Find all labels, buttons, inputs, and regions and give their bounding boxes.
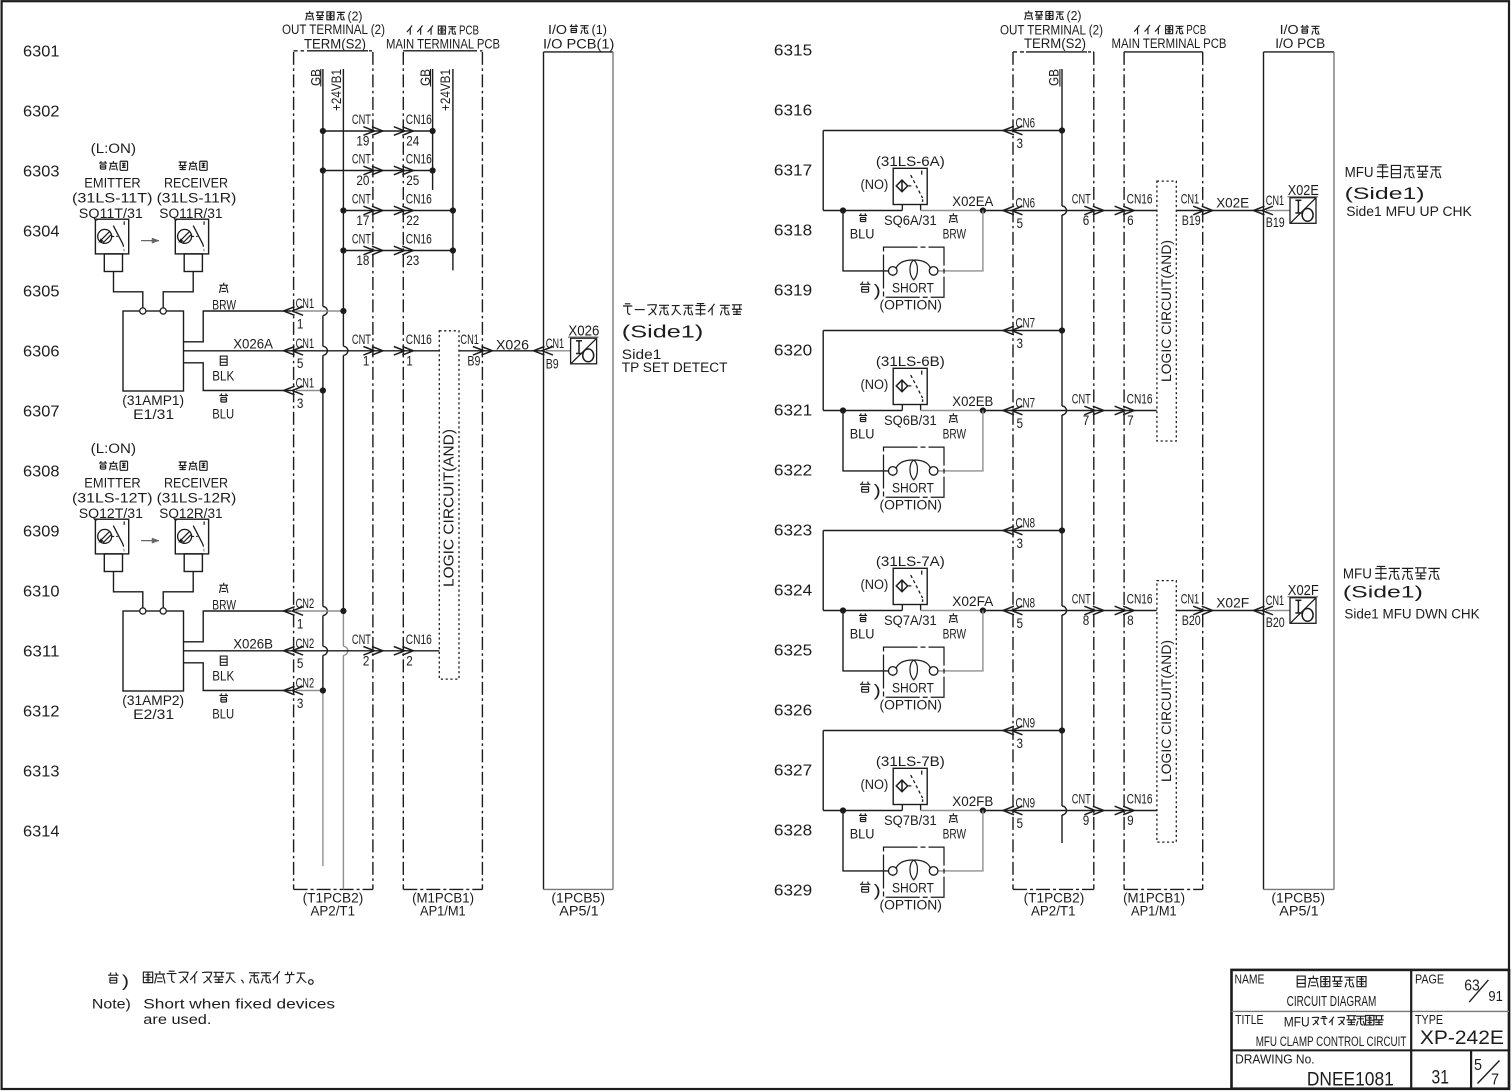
svg-text:LOGIC CIRCUIT(AND): LOGIC CIRCUIT(AND) xyxy=(442,429,458,587)
svg-text:6301: 6301 xyxy=(23,44,60,61)
svg-text:CN9: CN9 xyxy=(1016,716,1036,731)
svg-text:I/O: I/O xyxy=(548,22,567,37)
svg-text:3: 3 xyxy=(1017,336,1024,351)
svg-text:LOGIC CIRCUIT(AND): LOGIC CIRCUIT(AND) xyxy=(1159,640,1174,782)
MAIN bottom edge xyxy=(403,888,482,890)
svg-text:22: 22 xyxy=(406,213,419,229)
svg-text:6328: 6328 xyxy=(774,823,812,840)
svg-text:TERM(S2): TERM(S2) xyxy=(1024,36,1086,52)
svg-text:BRW: BRW xyxy=(943,627,967,643)
svg-text:5: 5 xyxy=(1017,816,1024,831)
svg-text:SQ7A/31: SQ7A/31 xyxy=(884,613,937,629)
svg-text:3: 3 xyxy=(1017,136,1024,151)
junction to SHORT option xyxy=(840,207,846,213)
connector CNT arrow xyxy=(1084,806,1095,815)
svg-text:CN16: CN16 xyxy=(406,332,432,348)
SHORT option sub-circuit xyxy=(843,411,889,471)
wire X02EA row xyxy=(823,210,902,212)
svg-text:AP5/1: AP5/1 xyxy=(559,904,598,920)
amplifier 31AMP2 E2/31 xyxy=(123,611,184,691)
SHORT jumper (OPTION) group 6A xyxy=(884,247,945,297)
wire BRW brown CN2 pin1 xyxy=(184,611,292,642)
connector CNT arrow xyxy=(1084,606,1095,615)
wires sensors to amplifier 2 xyxy=(114,572,143,608)
svg-text:): ) xyxy=(122,973,129,991)
svg-text:DRAWING No.: DRAWING No. xyxy=(1235,1052,1315,1067)
svg-text:CNT: CNT xyxy=(352,632,371,648)
svg-text:BRW: BRW xyxy=(212,598,236,614)
svg-text:24: 24 xyxy=(406,134,419,150)
wires sensors to amplifier xyxy=(114,272,143,308)
svg-text:B19: B19 xyxy=(1182,213,1201,228)
svg-text:MFU: MFU xyxy=(1284,1014,1310,1030)
junction BRW to +24VB1 xyxy=(340,608,346,614)
svg-text:17: 17 xyxy=(356,213,369,229)
connector CN16 arrow xyxy=(1115,806,1126,815)
svg-text:TITLE: TITLE xyxy=(1235,1012,1264,1027)
svg-text:CNT: CNT xyxy=(352,152,371,168)
svg-text:X02EA: X02EA xyxy=(952,194,993,210)
svg-text:B20: B20 xyxy=(1266,615,1285,630)
svg-text:2: 2 xyxy=(406,653,413,669)
X026 output line to I/O PCB xyxy=(459,350,542,352)
svg-text:(31LS-7A): (31LS-7A) xyxy=(876,554,945,570)
svg-text:I/O PCB: I/O PCB xyxy=(1275,36,1325,52)
connector CN1 B9 arrow (I/O pcb in) xyxy=(542,347,553,356)
svg-text:CN6: CN6 xyxy=(1016,196,1036,211)
svg-text:CN1: CN1 xyxy=(296,336,315,351)
wire CN7 pin 3 to GB xyxy=(823,330,1059,332)
svg-text:Short when fixed devices: Short when fixed devices xyxy=(143,997,335,1013)
I/O PCB(1) board rectangle xyxy=(544,51,614,53)
limit switch 31LS-7B SQ7B/31 (NO) xyxy=(893,768,927,804)
junction CN93 to GB xyxy=(1059,727,1065,733)
junction to SHORT option xyxy=(840,407,846,413)
svg-text:1: 1 xyxy=(297,316,304,331)
svg-text:5: 5 xyxy=(1474,1057,1482,1074)
connector CN16 arrow xyxy=(394,647,405,656)
svg-text:CNT: CNT xyxy=(1072,792,1091,808)
svg-text:6304: 6304 xyxy=(23,224,60,241)
svg-text:CN16: CN16 xyxy=(1127,792,1153,808)
svg-text:+24VB1: +24VB1 xyxy=(438,69,454,111)
svg-text:BLU: BLU xyxy=(850,827,875,843)
svg-text:EMITTER: EMITTER xyxy=(84,176,140,192)
svg-text:CNT: CNT xyxy=(1072,192,1091,208)
connector CN1 pin 5 arrow xyxy=(292,347,303,356)
svg-text:5: 5 xyxy=(297,356,304,371)
svg-text:XP-242E: XP-242E xyxy=(1420,1028,1504,1049)
amplifier 31AMP1 E1/31 xyxy=(123,311,184,391)
svg-text:): ) xyxy=(874,682,881,700)
svg-text:6305: 6305 xyxy=(23,284,60,301)
svg-text:AP1/M1: AP1/M1 xyxy=(1131,904,1177,920)
svg-text:9: 9 xyxy=(1127,813,1134,829)
svg-text:AP1/M1: AP1/M1 xyxy=(420,904,466,920)
connector CN16 arrow xyxy=(1115,406,1126,415)
svg-text:PCB: PCB xyxy=(459,22,479,37)
svg-text:CN1: CN1 xyxy=(1181,192,1200,207)
wire CN6 pin 3 to GB xyxy=(823,130,1059,132)
wire left side down xyxy=(822,731,824,811)
svg-text:(OPTION): (OPTION) xyxy=(880,498,942,514)
svg-text:CN1: CN1 xyxy=(546,336,565,351)
svg-text:BLK: BLK xyxy=(212,668,234,684)
svg-text:CN9: CN9 xyxy=(1016,796,1036,811)
svg-text:(NO): (NO) xyxy=(861,577,889,593)
SHORT option sub-circuit xyxy=(843,211,889,271)
svg-text:6322: 6322 xyxy=(774,463,812,480)
svg-text:CN16: CN16 xyxy=(406,112,432,128)
connector CN7 pin 3 arrow xyxy=(1012,326,1023,335)
svg-text:PAGE: PAGE xyxy=(1415,972,1444,987)
svg-text:(NO): (NO) xyxy=(861,177,889,193)
svg-text:91: 91 xyxy=(1488,989,1503,1005)
svg-text:MAIN TERMINAL PCB: MAIN TERMINAL PCB xyxy=(1112,36,1227,52)
TERM(S2) bottom edge xyxy=(294,888,373,890)
svg-text:1: 1 xyxy=(363,353,370,369)
svg-text:(31LS-12R): (31LS-12R) xyxy=(157,491,237,507)
svg-text:CN16: CN16 xyxy=(1127,392,1153,408)
svg-text:SHORT: SHORT xyxy=(892,680,934,696)
MAIN TERMINAL PCB boundary dash-dot lines xyxy=(402,52,404,890)
svg-text:CN1: CN1 xyxy=(1181,592,1200,607)
svg-text:(NO): (NO) xyxy=(861,377,889,393)
receiver 31LS-12R SQ12R/31 xyxy=(175,519,208,554)
connector CNT arrow xyxy=(363,347,374,356)
junction BRW to SHORT option xyxy=(980,607,986,613)
wire left side down xyxy=(822,331,824,411)
svg-text:TERM(S2): TERM(S2) xyxy=(304,36,366,52)
limit switch 31LS-6A SQ6A/31 (NO) xyxy=(893,168,927,204)
svg-text:GB: GB xyxy=(418,69,434,86)
svg-text:X026: X026 xyxy=(496,337,529,353)
svg-text:(2): (2) xyxy=(1067,8,1082,23)
svg-text:(31LS-6A): (31LS-6A) xyxy=(876,154,945,170)
svg-text:CN2: CN2 xyxy=(296,636,315,651)
right TERM bottom edge xyxy=(1013,888,1094,890)
svg-text:GB: GB xyxy=(308,69,324,86)
svg-text:CN6: CN6 xyxy=(1016,116,1036,131)
connector CNT arrow xyxy=(1084,206,1095,215)
junction to SHORT option xyxy=(840,607,846,613)
svg-text:8: 8 xyxy=(1083,613,1090,629)
svg-text:X02FA: X02FA xyxy=(952,594,994,610)
svg-text:Note): Note) xyxy=(92,997,131,1013)
svg-text:8: 8 xyxy=(1127,613,1134,629)
svg-text:B19: B19 xyxy=(1266,215,1285,230)
connector CN6 pin 5 arrow xyxy=(1012,206,1023,215)
svg-text:EMITTER: EMITTER xyxy=(84,476,140,492)
svg-text:Side1 MFU UP CHK: Side1 MFU UP CHK xyxy=(1346,204,1472,220)
svg-text:MAIN TERMINAL PCB: MAIN TERMINAL PCB xyxy=(386,36,500,52)
svg-text:9: 9 xyxy=(1083,813,1090,829)
SHORT jumper (OPTION) group 6B xyxy=(884,447,945,497)
connector CN1 B20 arrow (I/O in) xyxy=(1262,606,1273,615)
svg-text:X02F: X02F xyxy=(1216,595,1249,611)
svg-text:RECEIVER: RECEIVER xyxy=(164,176,228,192)
svg-text:6324: 6324 xyxy=(774,583,813,600)
connector CNT arrow xyxy=(363,647,374,656)
connector CN2 pin 3 arrow xyxy=(292,686,303,695)
svg-text:Side1 MFU DWN CHK: Side1 MFU DWN CHK xyxy=(1344,606,1480,622)
svg-text:CN8: CN8 xyxy=(1016,596,1036,611)
svg-text:CN1: CN1 xyxy=(296,376,315,391)
svg-text:BRW: BRW xyxy=(943,427,967,443)
wire BLU blue CN2 pin3 xyxy=(184,663,292,691)
connector CN1 B19 arrow (I/O in) xyxy=(1262,206,1273,215)
svg-text:BLU: BLU xyxy=(212,707,234,723)
svg-text:SQ7B/31: SQ7B/31 xyxy=(884,813,937,829)
svg-text:MFU: MFU xyxy=(1343,566,1372,583)
svg-text:(31LS-11T): (31LS-11T) xyxy=(72,191,153,207)
svg-text:CN16: CN16 xyxy=(1127,192,1153,208)
wire CN9 pin 3 to GB xyxy=(823,730,1059,732)
logic circuit AND dotted box (left) xyxy=(439,331,459,679)
connector CN1 pin 1 arrow xyxy=(292,307,303,316)
svg-text:SQ6A/31: SQ6A/31 xyxy=(884,213,937,229)
svg-text:(OPTION): (OPTION) xyxy=(880,298,942,314)
note: short when fixed devices are used xyxy=(108,972,119,983)
svg-text:6326: 6326 xyxy=(774,703,812,720)
svg-text:6310: 6310 xyxy=(23,584,60,601)
svg-text:5: 5 xyxy=(1017,416,1024,431)
svg-text:B9: B9 xyxy=(546,356,559,371)
svg-text:): ) xyxy=(874,882,881,900)
light beam arrow xyxy=(141,540,159,542)
svg-text:+24VB1: +24VB1 xyxy=(329,69,345,111)
svg-text:CN8: CN8 xyxy=(1016,516,1036,531)
svg-text:PCB: PCB xyxy=(1186,22,1206,37)
svg-text:CN16: CN16 xyxy=(406,232,432,248)
svg-text:6311: 6311 xyxy=(23,644,60,661)
svg-text:CN16: CN16 xyxy=(1127,592,1153,608)
svg-text:(NO): (NO) xyxy=(861,777,889,793)
junction BRW to SHORT option xyxy=(980,207,986,213)
logic circuit AND dotted boxes (right) xyxy=(1157,181,1176,441)
junction to SHORT option xyxy=(840,807,846,813)
svg-text:6323: 6323 xyxy=(774,523,812,540)
emitter 31LS-12T SQ12T/31 xyxy=(95,519,128,554)
svg-text:BRW: BRW xyxy=(212,298,236,314)
svg-text:CNT: CNT xyxy=(352,192,371,208)
connector CN1 B9 arrow (main pcb out) xyxy=(473,347,484,356)
svg-text:31: 31 xyxy=(1432,1067,1449,1089)
svg-text:CN16: CN16 xyxy=(406,192,432,208)
svg-text:MFU CLAMP CONTROL CIRCUIT: MFU CLAMP CONTROL CIRCUIT xyxy=(1256,1034,1407,1050)
connector CN6 pin 3 arrow xyxy=(1012,126,1023,135)
svg-text:(31LS-11R): (31LS-11R) xyxy=(157,191,237,207)
svg-text:18: 18 xyxy=(356,253,369,269)
svg-text:CN7: CN7 xyxy=(1016,396,1036,411)
svg-text:CN16: CN16 xyxy=(406,632,432,648)
svg-text:7: 7 xyxy=(1491,1072,1499,1089)
svg-text:BRW: BRW xyxy=(943,827,967,843)
junction BLU to GB xyxy=(320,687,326,693)
svg-text:1: 1 xyxy=(297,616,304,631)
TERM(S2) boundary dash-dot lines xyxy=(293,52,295,890)
annotation: tape press float detect (Side1) xyxy=(623,304,632,315)
connector CN1 B19 arrow (main out) xyxy=(1193,206,1204,215)
svg-text:CNT: CNT xyxy=(352,232,371,248)
svg-text:B9: B9 xyxy=(467,353,480,368)
svg-text:(1): (1) xyxy=(592,22,608,37)
svg-text:CN16: CN16 xyxy=(406,152,432,168)
svg-text:5: 5 xyxy=(1017,616,1024,631)
header right OUT TERMINAL (2) / TERM(S2) xyxy=(1025,11,1033,20)
junction BRW to +24VB1 xyxy=(340,308,346,314)
svg-text:3: 3 xyxy=(297,696,304,711)
svg-text:E2/31: E2/31 xyxy=(133,707,174,723)
svg-text:3: 3 xyxy=(1017,536,1024,551)
limit switch 31LS-6B SQ6B/31 (NO) xyxy=(893,368,927,404)
svg-text:X02EB: X02EB xyxy=(952,394,993,410)
connector CN8 pin 3 arrow xyxy=(1012,526,1023,535)
svg-text:CN7: CN7 xyxy=(1016,316,1036,331)
svg-text:6321: 6321 xyxy=(774,403,812,420)
connector CN2 pin 1 arrow xyxy=(292,607,303,616)
svg-text:CN1: CN1 xyxy=(1266,193,1285,208)
title block xyxy=(1232,970,1510,1089)
svg-text:): ) xyxy=(874,282,881,300)
right MAIN boundary dash-dot lines xyxy=(1123,52,1125,890)
svg-text:AP2/T1: AP2/T1 xyxy=(311,904,356,920)
svg-text:SHORT: SHORT xyxy=(892,480,934,496)
svg-text:CN2: CN2 xyxy=(296,676,315,691)
svg-text:6327: 6327 xyxy=(774,763,812,780)
svg-text:(OPTION): (OPTION) xyxy=(880,698,942,714)
connector CN2 pin 5 arrow xyxy=(292,647,303,656)
wire X02FA row xyxy=(823,610,902,612)
connector CN1 pin 3 arrow xyxy=(292,386,303,395)
svg-text:6314: 6314 xyxy=(23,824,60,841)
svg-text:RECEIVER: RECEIVER xyxy=(164,476,228,492)
svg-text:I/O PCB(1): I/O PCB(1) xyxy=(543,36,614,52)
X02E line to I/O PCB xyxy=(1176,210,1261,212)
connector CN8 pin 5 arrow xyxy=(1012,606,1023,615)
svg-text:6313: 6313 xyxy=(23,764,60,781)
svg-text:BLU: BLU xyxy=(850,227,875,243)
svg-text:SQ6B/31: SQ6B/31 xyxy=(884,413,937,429)
svg-text:): ) xyxy=(874,482,881,500)
svg-text:6309: 6309 xyxy=(23,524,60,541)
connector CN16 arrow xyxy=(1115,606,1126,615)
wire X02FB row xyxy=(823,810,902,812)
svg-text:6306: 6306 xyxy=(23,344,60,361)
connector CNT arrow xyxy=(1084,406,1095,415)
header right MAIN TERMINAL PCB xyxy=(1134,25,1139,34)
svg-text:23: 23 xyxy=(406,253,419,269)
svg-text:6315: 6315 xyxy=(774,43,813,60)
connector CN16 arrow xyxy=(1115,206,1126,215)
limit switch 31LS-7A SQ7A/31 (NO) xyxy=(893,568,927,604)
right I/O PCB board rectangle xyxy=(1264,51,1335,53)
svg-text:6: 6 xyxy=(1083,213,1090,229)
svg-text:(31LS-7B): (31LS-7B) xyxy=(876,754,945,770)
svg-text:6302: 6302 xyxy=(23,104,60,121)
X02F line to I/O PCB xyxy=(1176,610,1261,612)
svg-text:AP2/T1: AP2/T1 xyxy=(1031,904,1076,920)
svg-text:20: 20 xyxy=(356,173,369,189)
svg-text:CNT: CNT xyxy=(352,332,371,348)
svg-text:3: 3 xyxy=(297,396,304,411)
svg-text:6317: 6317 xyxy=(774,163,812,180)
SHORT option sub-circuit xyxy=(843,611,889,671)
svg-text:are used.: are used. xyxy=(143,1012,211,1028)
svg-text:X02FB: X02FB xyxy=(952,794,993,810)
svg-text:6318: 6318 xyxy=(774,223,812,240)
svg-text:6325: 6325 xyxy=(774,643,813,660)
svg-text:BLU: BLU xyxy=(850,627,875,643)
connector CN16 arrow xyxy=(394,347,405,356)
svg-text:(31LS-6B): (31LS-6B) xyxy=(876,354,945,370)
SHORT jumper (OPTION) group 7A xyxy=(884,647,945,697)
junction BRW to SHORT option xyxy=(980,407,986,413)
svg-text:MFU: MFU xyxy=(1345,164,1374,181)
svg-text:(Side1): (Side1) xyxy=(1343,584,1423,602)
svg-text:CN1: CN1 xyxy=(1266,593,1285,608)
svg-text:1: 1 xyxy=(406,353,413,369)
right TERM boundary dash-dot lines xyxy=(1012,52,1014,890)
svg-text:X02E: X02E xyxy=(1216,195,1249,211)
junction BRW to SHORT option xyxy=(980,807,986,813)
svg-text:CN2: CN2 xyxy=(296,596,315,611)
SHORT jumper (OPTION) group 7B xyxy=(884,847,945,897)
junction CN83 to GB xyxy=(1059,527,1065,533)
svg-text:7: 7 xyxy=(1127,413,1134,429)
svg-text:TP SET DETECT: TP SET DETECT xyxy=(622,360,728,376)
light beam arrow xyxy=(141,240,159,242)
header MAIN TERMINAL PCB xyxy=(407,25,412,34)
svg-text:6320: 6320 xyxy=(774,343,813,360)
svg-text:CIRCUIT DIAGRAM: CIRCUIT DIAGRAM xyxy=(1287,994,1377,1010)
wire BLU blue CN1 pin3 xyxy=(184,363,292,391)
emitter 31LS-11T SQ11T/31 xyxy=(95,219,128,254)
junction CN73 to GB xyxy=(1059,327,1065,333)
svg-text:6329: 6329 xyxy=(774,883,812,900)
SHORT option sub-circuit xyxy=(843,811,889,871)
svg-text:CN1: CN1 xyxy=(296,296,315,311)
header OUT TERMINAL (2) / TERM(S2) xyxy=(306,11,314,20)
connector CN7 pin 5 arrow xyxy=(1012,406,1023,415)
svg-text:BLK: BLK xyxy=(212,368,234,384)
wire X026A CN1 pin5 xyxy=(184,350,440,352)
power interconnect rows CNT19-24,20-25,17-22,18-23 xyxy=(323,130,433,132)
svg-text:X026B: X026B xyxy=(233,637,273,653)
svg-text:SHORT: SHORT xyxy=(892,880,934,896)
junction CN63 to GB xyxy=(1059,127,1065,133)
svg-text:CNT: CNT xyxy=(352,112,371,128)
svg-text:3: 3 xyxy=(1017,736,1024,751)
svg-text:6312: 6312 xyxy=(23,704,60,721)
svg-text:6303: 6303 xyxy=(23,164,60,181)
wire BRW brown CN1 pin1 xyxy=(184,311,292,342)
svg-text:6: 6 xyxy=(1127,213,1134,229)
svg-text:B20: B20 xyxy=(1182,613,1201,628)
svg-text:6316: 6316 xyxy=(774,103,812,120)
svg-text:CNT: CNT xyxy=(1072,592,1091,608)
svg-text:7: 7 xyxy=(1083,413,1090,429)
svg-text:25: 25 xyxy=(406,173,419,189)
svg-text:AP5/1: AP5/1 xyxy=(1279,904,1318,920)
svg-text:LOGIC CIRCUIT(AND): LOGIC CIRCUIT(AND) xyxy=(1159,240,1174,382)
svg-text:(OPTION): (OPTION) xyxy=(880,898,942,914)
svg-text:TYPE: TYPE xyxy=(1415,1012,1443,1027)
svg-text:E1/31: E1/31 xyxy=(133,407,174,423)
wire X026B CN2 pin5 xyxy=(184,650,440,652)
svg-text:6307: 6307 xyxy=(23,404,60,421)
wire CN8 pin 3 to GB xyxy=(823,530,1059,532)
